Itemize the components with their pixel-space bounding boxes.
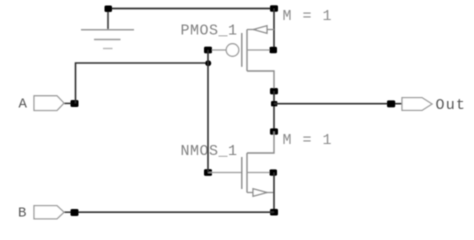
transistor NMOS_1 drain lead xyxy=(247,132,274,154)
pin junction NMOS_1 bulk xyxy=(270,169,278,175)
wire top rail gnd to PMOS source column xyxy=(108,8,274,10)
junction dot A tap xyxy=(71,100,79,107)
port A symbol xyxy=(34,96,64,111)
junction dot output tee xyxy=(271,101,277,106)
junction dot at gnd tap xyxy=(105,6,113,13)
port Out symbol xyxy=(402,98,432,111)
transistor PMOS_1 source lead xyxy=(247,29,274,31)
junction dot B port tap xyxy=(71,209,79,216)
transistor NMOS_1 channel bar xyxy=(246,153,248,193)
transistor PMOS_1 gate bubble xyxy=(226,44,239,57)
svg-text:A: A xyxy=(19,96,28,112)
transistor NMOS_1 source arrow (points away from channel) xyxy=(253,189,267,197)
junction dot NMOS drain column top xyxy=(270,128,278,134)
pin junction PMOS_1 drain xyxy=(270,88,278,94)
transistor NMOS_1 gate bar xyxy=(241,157,243,189)
junction dot PMOS source column top xyxy=(270,5,278,12)
svg-text:M = 1: M = 1 xyxy=(283,132,333,149)
ground symbol xyxy=(81,9,134,49)
wire B net bottom rail xyxy=(75,211,274,213)
wire NMOS source/bulk column xyxy=(273,173,275,213)
transistor PMOS_1 drain lead xyxy=(247,71,274,91)
wire PMOS source/bulk column xyxy=(273,9,275,51)
wire A port to tap xyxy=(64,102,75,104)
junction dot Out port tap xyxy=(387,100,395,107)
wire output node column xyxy=(273,91,275,132)
transistor PMOS_1 bulk lead xyxy=(247,49,271,51)
junction dot A to gate bus tee xyxy=(205,60,211,66)
svg-text:NMOS_1: NMOS_1 xyxy=(181,143,238,160)
svg-text:M = 1: M = 1 xyxy=(283,8,333,25)
transistor PMOS_1 source arrow (points into channel) xyxy=(254,26,268,34)
pin junction PMOS_1 gate xyxy=(204,47,212,54)
pin junction PMOS_1 bulk xyxy=(270,47,278,53)
wire B port to tap xyxy=(64,211,75,213)
transistor NMOS_1 bulk lead xyxy=(247,172,271,174)
wire A net up and over xyxy=(76,63,209,103)
transistor PMOS_1 gate lead xyxy=(208,49,226,51)
wire gate bus xyxy=(207,50,209,173)
svg-text:Out: Out xyxy=(436,97,467,114)
svg-text:B: B xyxy=(18,206,26,222)
pin junction NMOS_1 gate xyxy=(204,169,212,176)
transistor PMOS_1 gate bar xyxy=(241,33,243,67)
transistor PMOS_1 channel bar xyxy=(246,30,248,72)
transistor NMOS_1 gate lead xyxy=(208,172,242,174)
transistor NMOS_1 source lead xyxy=(247,192,274,194)
port B symbol xyxy=(34,206,64,219)
svg-text:PMOS_1: PMOS_1 xyxy=(181,23,238,40)
wire Out horizontal xyxy=(274,103,402,105)
junction dot bottom right xyxy=(270,209,278,216)
